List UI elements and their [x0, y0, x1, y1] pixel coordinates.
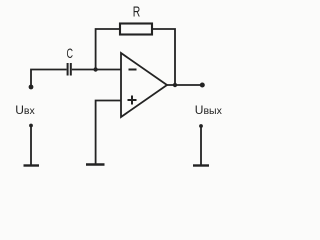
input terminal node [29, 85, 34, 90]
capacitor C right plate [70, 63, 72, 76]
capacitor C left plate [67, 63, 69, 76]
wire: output reference to ground [200, 126, 202, 165]
op-amp minus sign [129, 69, 137, 71]
wire: input terminal up to input line [31, 70, 67, 88]
node: inverting input junction [93, 67, 97, 71]
svg-text:Uвых: Uвых [195, 103, 223, 117]
op-amp U1 [121, 53, 167, 117]
wire: non-inverting input down to ground [96, 101, 121, 164]
svg-text:Uвх: Uвх [15, 103, 35, 117]
ground bar (output reference) [193, 164, 209, 166]
resistor R [120, 24, 152, 35]
wire: input reference to ground [30, 126, 32, 165]
op-amp plus sign [128, 96, 137, 105]
node: feedback/output junction [173, 83, 177, 87]
svg-text:R: R [133, 5, 141, 21]
svg-text:C: C [66, 45, 73, 61]
ground bar (input reference) [24, 164, 40, 166]
wire: feedback left (up and right to resistor) [96, 29, 120, 70]
wire: capacitor to inverting input [72, 69, 121, 71]
ground bar (non-inverting input) [86, 163, 105, 165]
terminal: input reference dot [29, 124, 33, 128]
wire: output [167, 84, 200, 86]
wire: feedback right (from resistor down to output) [152, 29, 175, 85]
output terminal node [200, 83, 205, 88]
terminal: output reference dot [199, 124, 203, 128]
